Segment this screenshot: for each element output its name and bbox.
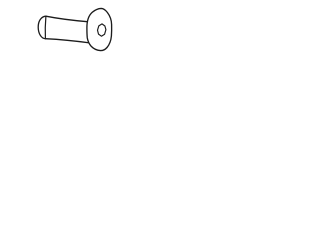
- tail tip arc: [38, 16, 46, 39]
- shank bottom edge: [45, 39, 89, 43]
- head hole: [98, 24, 106, 36]
- rivet head outline: [87, 8, 112, 50]
- tail cap edge: [44, 16, 47, 39]
- shank top edge: [46, 16, 89, 22]
